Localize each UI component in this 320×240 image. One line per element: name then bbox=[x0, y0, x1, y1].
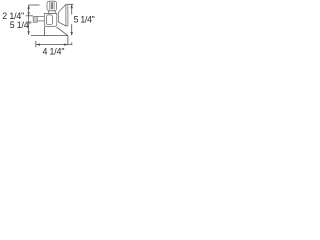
wire baseline horizontal bbox=[31, 35, 68, 37]
wire right extension elbow bbox=[68, 36, 72, 45]
valve body bbox=[44, 13, 57, 26]
node bottom dimension right arrow bbox=[64, 43, 68, 45]
wire outlet centerline extension tick bbox=[26, 15, 33, 17]
node right dimension down arrow bbox=[71, 32, 73, 36]
wire top extension line left bbox=[29, 4, 40, 6]
node left dimension bottom down arrow bbox=[27, 31, 29, 35]
wire right dimension line vertical bbox=[71, 4, 73, 35]
wire left dimension line vertical bbox=[28, 5, 30, 35]
label 2 1/4 inch bbox=[2, 11, 24, 21]
escutcheon cone bbox=[58, 4, 68, 26]
handle knob bbox=[47, 1, 57, 11]
label 5 1/4 inch right bbox=[74, 15, 95, 25]
svg-text:5 1/4": 5 1/4" bbox=[10, 20, 32, 30]
outlet tube bbox=[37, 16, 44, 21]
label 5 1/4 inch left bbox=[10, 20, 32, 30]
wire right top extension bbox=[68, 3, 73, 5]
wire bottom left extension tick bbox=[35, 41, 37, 47]
node right dimension up arrow bbox=[71, 4, 73, 8]
label 4 1/4 inch bottom bbox=[43, 47, 65, 57]
packing nut bbox=[48, 11, 55, 14]
wire bottom dimension line bbox=[36, 44, 68, 46]
svg-text:4 1/4": 4 1/4" bbox=[43, 47, 65, 57]
node left dimension mid down arrow bbox=[27, 12, 29, 16]
svg-text:5 1/4": 5 1/4" bbox=[74, 15, 95, 25]
wire wall edge diagonal bbox=[56, 27, 68, 36]
outlet compression nut bbox=[33, 16, 37, 22]
wire inlet drop line bbox=[43, 26, 45, 35]
node bottom dimension left arrow bbox=[36, 43, 40, 45]
node left dimension up arrow bbox=[27, 5, 29, 9]
